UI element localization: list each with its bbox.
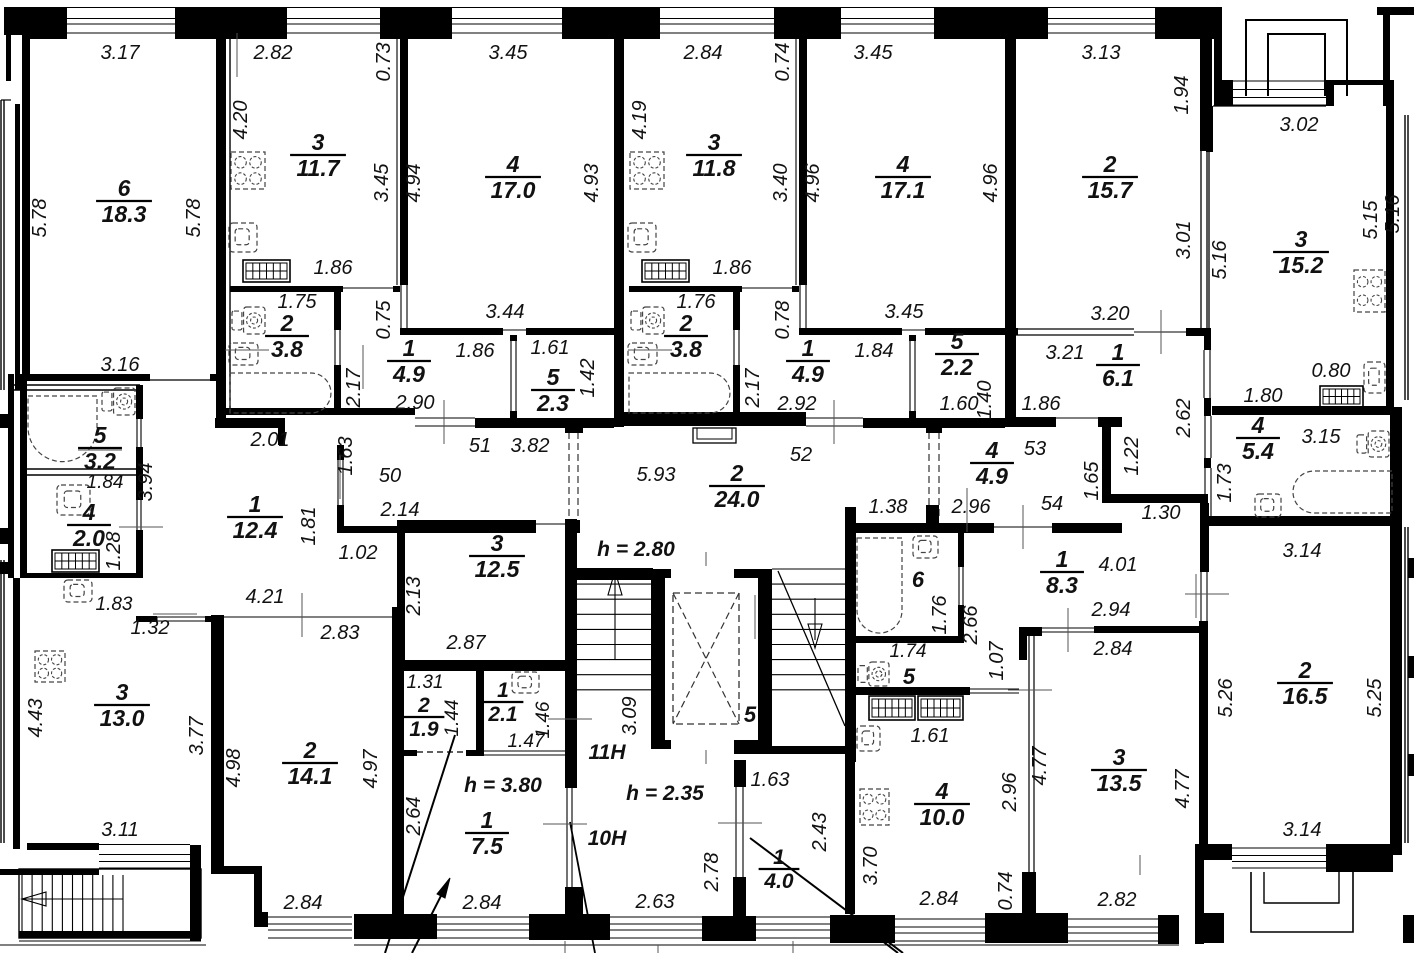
svg-text:1: 1 bbox=[497, 679, 509, 702]
wall between 3/15.2 and 4/5.4 bbox=[1212, 406, 1394, 415]
svg-text:3.45: 3.45 bbox=[885, 301, 925, 323]
svg-text:3.11: 3.11 bbox=[101, 819, 138, 841]
svg-text:4.20: 4.20 bbox=[230, 101, 252, 140]
svg-text:2.66: 2.66 bbox=[960, 605, 982, 646]
room 3/13.0 bottom wall bbox=[27, 843, 99, 850]
stair treads right flight bbox=[772, 568, 845, 570]
svg-text:1.02: 1.02 bbox=[339, 542, 378, 564]
stair top wall bbox=[577, 568, 653, 580]
room label 3/13.0 bbox=[94, 679, 150, 731]
svg-text:11.8: 11.8 bbox=[692, 155, 735, 181]
svg-text:3.77: 3.77 bbox=[186, 716, 208, 756]
top exterior wall pilaster blocks bbox=[4, 7, 67, 35]
room label 5/2.3 bbox=[531, 364, 575, 416]
svg-text:2: 2 bbox=[1103, 151, 1117, 177]
room 3/13.0 bottom window bbox=[99, 844, 190, 846]
elevator shaft walls bbox=[651, 569, 671, 578]
bottom window 4/10.0 bbox=[895, 918, 985, 920]
svg-text:1.94: 1.94 bbox=[1171, 76, 1193, 115]
wall between 5/3.2 and 4/2.0 bbox=[27, 468, 138, 470]
sink room 3/11.8 bbox=[628, 223, 656, 252]
svg-text:2.84: 2.84 bbox=[919, 888, 959, 910]
canopy window band room 3/15.2 bbox=[1233, 80, 1326, 82]
radiator 4/2.0 bbox=[52, 550, 99, 572]
room 3/12.5 bottom wall bbox=[397, 660, 575, 671]
room label 1/6.1 bbox=[1096, 339, 1140, 391]
svg-text:4.19: 4.19 bbox=[629, 101, 651, 140]
corridor dashed door lines east bbox=[928, 432, 930, 519]
radiator pair 4/10.0 a bbox=[869, 696, 915, 720]
svg-text:1.81: 1.81 bbox=[298, 507, 320, 546]
svg-text:3.45: 3.45 bbox=[489, 42, 529, 64]
entrance canopy inner rect bbox=[1268, 34, 1325, 96]
stair west wall bbox=[565, 519, 577, 754]
svg-text:15.2: 15.2 bbox=[1279, 252, 1324, 278]
svg-text:1: 1 bbox=[249, 491, 262, 517]
hall 1/12.4 top wall bbox=[215, 418, 285, 428]
svg-text:13.0: 13.0 bbox=[100, 705, 145, 731]
wall between 6 and 5 bbox=[855, 636, 964, 643]
door swing diagonal 10H bbox=[570, 822, 595, 953]
apt3 bottom wall bbox=[621, 412, 806, 426]
room label 2/15.7 bbox=[1082, 151, 1138, 203]
svg-text:5.16: 5.16 bbox=[1382, 194, 1404, 234]
svg-text:1.32: 1.32 bbox=[131, 617, 170, 639]
svg-text:6: 6 bbox=[118, 175, 131, 201]
svg-text:3.45: 3.45 bbox=[854, 42, 894, 64]
svg-text:53: 53 bbox=[1024, 438, 1046, 460]
room 4/17.0 bottom wall bbox=[400, 328, 503, 335]
svg-text:2.17: 2.17 bbox=[343, 368, 365, 409]
washbasin under 4/2.0 bbox=[64, 580, 92, 602]
toilet bath 2/3.8b bbox=[643, 307, 664, 334]
svg-text:5.78: 5.78 bbox=[183, 199, 205, 238]
entry stair outline bbox=[19, 869, 201, 938]
far right adjacent wall bbox=[1404, 115, 1406, 400]
toilet bath 4/5.4 bbox=[1368, 431, 1389, 457]
entry stair treads bbox=[21, 875, 23, 931]
svg-text:2: 2 bbox=[280, 310, 294, 336]
svg-text:1.38: 1.38 bbox=[869, 496, 908, 518]
svg-text:3.02: 3.02 bbox=[1280, 114, 1319, 136]
svg-text:2.83: 2.83 bbox=[320, 622, 360, 644]
stair up arrow bbox=[614, 575, 616, 660]
bath 4/5.4 left door bbox=[1204, 416, 1206, 458]
svg-text:3.13: 3.13 bbox=[1082, 42, 1121, 64]
section diagonal line left long bbox=[385, 735, 455, 953]
partition 4/10.0 vs 3/13.5 bbox=[1028, 636, 1030, 872]
bottom window 1/4.0 bbox=[756, 916, 830, 918]
door 0.75 lines bbox=[400, 285, 402, 328]
elevator car dashed with X bbox=[673, 593, 739, 724]
room label 4/4.9 bbox=[970, 437, 1014, 489]
room 5 bottom wall bbox=[855, 687, 970, 695]
svg-text:1.86: 1.86 bbox=[314, 257, 354, 279]
svg-text:1.80: 1.80 bbox=[1244, 385, 1283, 407]
room label 3/11.7 bbox=[290, 129, 346, 181]
toilet bath 2/3.8 bbox=[244, 307, 265, 334]
svg-text:5: 5 bbox=[94, 422, 108, 448]
svg-text:2.78: 2.78 bbox=[701, 853, 723, 893]
svg-text:3.8: 3.8 bbox=[271, 336, 303, 362]
svg-text:4.0: 4.0 bbox=[763, 870, 794, 893]
stove room 3/15.2 bbox=[1354, 270, 1385, 312]
svg-text:2.01: 2.01 bbox=[250, 429, 290, 451]
svg-text:2.84: 2.84 bbox=[283, 892, 323, 914]
toilet room 5 bbox=[869, 662, 889, 686]
window W3 room 4/17.0 bbox=[452, 7, 562, 9]
svg-text:2.13: 2.13 bbox=[403, 577, 425, 617]
washbasin bath 6 bbox=[913, 536, 938, 558]
room label 4/17.1 bbox=[875, 151, 931, 203]
apt3/apt4 divider wall bbox=[1005, 7, 1016, 427]
svg-text:3.21: 3.21 bbox=[1046, 342, 1085, 364]
svg-text:h = 3.80: h = 3.80 bbox=[464, 774, 542, 797]
svg-text:0.74: 0.74 bbox=[772, 43, 794, 82]
svg-text:2.43: 2.43 bbox=[809, 813, 831, 853]
svg-text:0.80: 0.80 bbox=[1312, 360, 1351, 382]
svg-text:1.74: 1.74 bbox=[890, 641, 927, 662]
bottom right porch inner bbox=[1264, 872, 1339, 903]
washbasin bath 2/3.8 bbox=[229, 343, 258, 365]
bath 2/3.8b top wall bbox=[629, 286, 742, 292]
svg-text:h = 2.35: h = 2.35 bbox=[626, 782, 704, 805]
entrance canopy top right outer rect bbox=[1246, 20, 1347, 96]
room 6 bottom wall bbox=[22, 374, 150, 381]
sink room 3/11.7 bbox=[229, 223, 257, 252]
room 2/15.7 bottom wall bbox=[1016, 328, 1134, 330]
svg-text:1.86: 1.86 bbox=[713, 257, 753, 279]
svg-text:12.4: 12.4 bbox=[233, 517, 278, 543]
bottom dim extension ticks bbox=[564, 941, 566, 953]
room label 6/18.3 bbox=[96, 175, 152, 227]
section diagonal line right long bbox=[750, 838, 903, 953]
svg-text:0.73: 0.73 bbox=[373, 43, 395, 82]
room label 3/13.5 bbox=[1091, 744, 1147, 796]
entry stair mid line with arrow bbox=[22, 898, 123, 900]
svg-text:11Н: 11Н bbox=[589, 741, 627, 764]
svg-text:1.84: 1.84 bbox=[855, 340, 894, 362]
svg-text:3.14: 3.14 bbox=[1283, 540, 1322, 562]
svg-text:4.43: 4.43 bbox=[25, 699, 47, 738]
svg-text:4: 4 bbox=[1251, 412, 1265, 438]
room label 3/12.5 bbox=[469, 530, 525, 582]
hall right wall to corridor bbox=[337, 445, 344, 460]
bathtub bath 2/3.8b bbox=[629, 373, 730, 413]
svg-text:1.22: 1.22 bbox=[1121, 437, 1143, 476]
svg-text:18.3: 18.3 bbox=[102, 201, 147, 227]
svg-text:1: 1 bbox=[1056, 546, 1069, 572]
stair down arrow bbox=[814, 598, 816, 640]
stove 4/10.0 bbox=[860, 789, 889, 825]
bath 2/3.8b right wall bbox=[733, 288, 740, 330]
svg-text:1.73: 1.73 bbox=[1214, 464, 1236, 503]
bathtub bath 4/5.4 bbox=[1293, 471, 1392, 513]
svg-text:5.15: 5.15 bbox=[1360, 200, 1382, 240]
corridor top wall west part bbox=[475, 418, 614, 428]
svg-text:2.14: 2.14 bbox=[380, 499, 420, 521]
bath 6 right wall bbox=[958, 533, 964, 567]
svg-text:1: 1 bbox=[802, 335, 815, 361]
stove room 3/11.8 bbox=[630, 152, 664, 189]
svg-text:1.9: 1.9 bbox=[409, 718, 439, 741]
svg-text:4.77: 4.77 bbox=[1172, 769, 1194, 809]
room 3/13.0 top wall bbox=[136, 616, 157, 622]
window W4 room 3/11.8 bbox=[660, 7, 774, 9]
svg-text:15.7: 15.7 bbox=[1088, 177, 1134, 203]
section diagonal line right short bbox=[855, 920, 898, 953]
room 3/15.2 right wall bbox=[1386, 84, 1394, 407]
apt2 entry door lines bbox=[415, 417, 475, 419]
wall 3/13.5 right bottom bbox=[1195, 844, 1204, 944]
svg-text:3.45: 3.45 bbox=[371, 163, 393, 203]
svg-text:2.82: 2.82 bbox=[1097, 889, 1137, 911]
svg-text:3: 3 bbox=[491, 530, 504, 556]
left wall lower (room 3/13.0) bbox=[13, 578, 20, 849]
room 3/12.5 left wall bbox=[397, 520, 405, 660]
room label 5/3.2 bbox=[78, 422, 122, 474]
room label 4/2.0 bbox=[67, 499, 111, 551]
room 2/16.5 left door bbox=[1200, 572, 1202, 621]
vent block below corridor wall bbox=[693, 428, 736, 443]
apt5 top wall bbox=[845, 523, 994, 533]
room 3/15.2 left wall bbox=[1206, 106, 1213, 152]
svg-text:1.86: 1.86 bbox=[1022, 393, 1062, 415]
svg-text:1.60: 1.60 bbox=[940, 393, 979, 415]
svg-text:2: 2 bbox=[417, 694, 430, 717]
svg-text:2.87: 2.87 bbox=[446, 632, 487, 654]
svg-text:1.61: 1.61 bbox=[911, 725, 950, 747]
svg-text:1.46: 1.46 bbox=[533, 701, 554, 738]
bottom window 1/7.5 bbox=[437, 916, 529, 918]
svg-text:2.84: 2.84 bbox=[683, 42, 723, 64]
svg-text:1.63: 1.63 bbox=[751, 769, 790, 791]
svg-text:3.16: 3.16 bbox=[101, 354, 141, 376]
entry stair bottom bar bbox=[19, 931, 201, 938]
wall 2/14.1 vs cluster bbox=[392, 607, 404, 917]
wall between 3/11.8 and 4/17.1 bbox=[799, 33, 807, 285]
svg-text:5.93: 5.93 bbox=[637, 464, 676, 486]
room label 1/4.9 b bbox=[786, 335, 830, 387]
svg-text:3.8: 3.8 bbox=[670, 336, 702, 362]
svg-text:1.65: 1.65 bbox=[1081, 461, 1103, 501]
svg-text:1.44: 1.44 bbox=[442, 700, 463, 737]
hallway/3-13.5 corner wall bbox=[1019, 627, 1042, 636]
bathtub bath 6 bbox=[857, 538, 902, 633]
apt2 bottom wall bbox=[222, 408, 415, 415]
opening 4.21 line bbox=[224, 616, 392, 618]
svg-text:1: 1 bbox=[403, 335, 416, 361]
svg-text:3.40: 3.40 bbox=[770, 164, 792, 203]
toilet 1/2.1 bbox=[512, 672, 539, 693]
window W6 room 2/15.7 bbox=[1048, 7, 1155, 9]
svg-text:3.15: 3.15 bbox=[1302, 426, 1342, 448]
svg-text:0.74: 0.74 bbox=[995, 872, 1017, 911]
svg-text:3.70: 3.70 bbox=[860, 847, 882, 886]
svg-text:54: 54 bbox=[1041, 493, 1063, 515]
svg-text:5: 5 bbox=[744, 702, 757, 727]
far right gutter lines lower bbox=[1404, 527, 1406, 843]
bath 4/5.4 bottom wall bbox=[1200, 516, 1394, 525]
svg-text:7.5: 7.5 bbox=[471, 833, 504, 859]
svg-text:3: 3 bbox=[1295, 226, 1308, 252]
svg-text:8.3: 8.3 bbox=[1046, 572, 1078, 598]
svg-text:2.64: 2.64 bbox=[403, 797, 425, 837]
svg-text:4.96: 4.96 bbox=[980, 163, 1002, 203]
svg-text:2.82: 2.82 bbox=[253, 42, 293, 64]
room 2/16.5 left wall upper bbox=[1200, 503, 1209, 572]
corridor top wall east part bbox=[1016, 417, 1056, 427]
svg-text:1.61: 1.61 bbox=[531, 337, 570, 359]
svg-text:3.20: 3.20 bbox=[1091, 303, 1130, 325]
svg-text:6.1: 6.1 bbox=[1102, 365, 1134, 391]
top wall inner band y33-39 between windows bbox=[22, 33, 67, 39]
svg-text:1.31: 1.31 bbox=[407, 672, 444, 693]
room 3/15.2 top inner line bbox=[1213, 105, 1326, 107]
bottom window corridor bbox=[610, 916, 702, 918]
2/14.1 bottom wall piece bbox=[254, 912, 268, 927]
apt5 top wall stub bbox=[926, 505, 939, 524]
wall 2/15.7 right: pilaster and plaster lines bbox=[1200, 35, 1212, 151]
svg-text:2: 2 bbox=[730, 460, 744, 486]
sink room 3/15.2 bbox=[1364, 362, 1385, 393]
room label 2/3.8 b bbox=[664, 310, 708, 362]
stair core east wall bbox=[845, 507, 856, 762]
svg-text:2.1: 2.1 bbox=[487, 703, 517, 726]
bottom right corner block bbox=[1326, 844, 1393, 872]
svg-text:1: 1 bbox=[773, 846, 785, 869]
room label 4/17.0 bbox=[485, 151, 541, 203]
svg-text:4: 4 bbox=[896, 151, 910, 177]
svg-text:3.17: 3.17 bbox=[101, 42, 141, 64]
svg-text:5.26: 5.26 bbox=[1215, 678, 1237, 718]
svg-text:3.14: 3.14 bbox=[1283, 819, 1322, 841]
door 0.78 lines bbox=[799, 285, 801, 328]
svg-text:2: 2 bbox=[303, 737, 317, 763]
bath 2/3.8 top wall bbox=[230, 286, 343, 292]
svg-text:3: 3 bbox=[312, 129, 325, 155]
svg-text:2.0: 2.0 bbox=[72, 525, 105, 551]
wall 1/8.3 vs 3/13.5 bbox=[1094, 626, 1200, 633]
room 2/16.5 right wall bbox=[1390, 525, 1402, 855]
svg-text:1.30: 1.30 bbox=[1142, 502, 1181, 524]
partition hall 1/4.9 and 5/2.3 bbox=[510, 335, 517, 341]
svg-text:10Н: 10Н bbox=[588, 827, 627, 850]
svg-text:3.2: 3.2 bbox=[84, 448, 116, 474]
svg-text:4.97: 4.97 bbox=[360, 749, 382, 789]
svg-text:13.5: 13.5 bbox=[1097, 770, 1143, 796]
dimension ticks bbox=[362, 345, 364, 389]
top right exterior wall piece bbox=[1377, 7, 1414, 15]
washbasin bath 4/5.4 bbox=[1255, 494, 1281, 517]
svg-text:0.78: 0.78 bbox=[772, 301, 794, 340]
left wall mid (rooms 5/3.2,4/2.0) bbox=[8, 374, 14, 578]
left edge stubs bbox=[0, 528, 8, 544]
svg-text:4: 4 bbox=[506, 151, 520, 177]
svg-text:1: 1 bbox=[481, 807, 494, 833]
svg-text:4: 4 bbox=[82, 499, 96, 525]
svg-text:1.84: 1.84 bbox=[87, 472, 124, 493]
svg-text:2.2: 2.2 bbox=[940, 354, 973, 380]
radiator room 3/11.7 bbox=[243, 260, 290, 282]
svg-text:4.93: 4.93 bbox=[581, 164, 603, 203]
room label 1/8.3 bbox=[1040, 546, 1084, 598]
bottom wall 4/2.0 bbox=[26, 573, 138, 578]
corridor dashed door lines west bbox=[568, 432, 570, 519]
apt2/apt3 divider wall bbox=[614, 7, 624, 427]
stove room 3/13.0 bbox=[35, 651, 65, 682]
svg-text:3.94: 3.94 bbox=[135, 463, 157, 502]
entry stair top bar bbox=[0, 869, 99, 875]
wall right of 1/7.5 upper bbox=[565, 744, 577, 788]
svg-text:1.83: 1.83 bbox=[96, 594, 133, 615]
corridor L wall horizontal bbox=[1111, 494, 1208, 503]
bath 2/3.8 right wall bbox=[334, 288, 341, 330]
svg-text:5: 5 bbox=[951, 328, 965, 354]
svg-text:4.9: 4.9 bbox=[392, 361, 425, 387]
svg-text:1.07: 1.07 bbox=[986, 641, 1008, 681]
far right adjacent stubs bbox=[1408, 558, 1414, 578]
radiator room 3/11.8 bbox=[642, 260, 689, 282]
cluster bottom wall bbox=[398, 750, 417, 756]
svg-text:4.9: 4.9 bbox=[975, 463, 1008, 489]
svg-text:10.0: 10.0 bbox=[920, 804, 965, 830]
room label 3/15.2 bbox=[1273, 226, 1329, 278]
window W1 room 6 bbox=[67, 7, 175, 9]
bottom right edge piece bbox=[1403, 915, 1414, 943]
room label 2/1.9 bbox=[404, 694, 445, 741]
entry stair outer edge lines bbox=[19, 940, 201, 942]
partition lower stub bbox=[1022, 872, 1036, 917]
room label 5/2.2 bbox=[935, 328, 979, 380]
room label 2/24.0 bbox=[709, 460, 765, 512]
svg-text:2: 2 bbox=[679, 310, 693, 336]
svg-text:2.3: 2.3 bbox=[536, 390, 569, 416]
svg-text:24.0: 24.0 bbox=[714, 486, 760, 512]
svg-text:1.28: 1.28 bbox=[103, 532, 125, 571]
left balcony rail upper bbox=[0, 100, 2, 390]
svg-text:4.01: 4.01 bbox=[1099, 554, 1138, 576]
stair treads left flight bbox=[577, 568, 651, 570]
svg-text:5.4: 5.4 bbox=[1242, 438, 1274, 464]
bath 5/3.2 top wall bbox=[14, 384, 140, 386]
svg-text:5: 5 bbox=[547, 364, 561, 390]
svg-text:3: 3 bbox=[1113, 744, 1126, 770]
svg-text:52: 52 bbox=[790, 444, 812, 466]
radiator room 3/15.2 bbox=[1320, 386, 1363, 407]
right exterior wall mid bbox=[1390, 407, 1402, 525]
svg-text:2.96: 2.96 bbox=[999, 772, 1021, 813]
svg-text:5.78: 5.78 bbox=[29, 199, 51, 238]
wall 3/13.0 vs 2/14.1 bbox=[211, 615, 224, 872]
apt2 left inner face line bbox=[229, 39, 231, 408]
room label 1/4.0 bbox=[759, 846, 800, 893]
bathtub bath 2/3.8 bbox=[230, 373, 331, 413]
svg-text:4.9: 4.9 bbox=[791, 361, 824, 387]
svg-text:1.63: 1.63 bbox=[335, 437, 357, 476]
room 2/16.5 left wall lower bbox=[1199, 621, 1208, 846]
room 2/16.5 top wall bbox=[1209, 517, 1394, 526]
svg-text:4.21: 4.21 bbox=[246, 586, 285, 608]
svg-text:3.09: 3.09 bbox=[619, 697, 641, 736]
room label 1/7.5 bbox=[465, 807, 509, 859]
washbasin 4/2.0 bbox=[57, 485, 90, 515]
room 2/16.5 bottom window bbox=[1232, 847, 1326, 849]
svg-text:6: 6 bbox=[912, 567, 925, 592]
left party wall bar upper bbox=[15, 104, 20, 390]
svg-text:3.82: 3.82 bbox=[511, 435, 550, 457]
room 6 door opening line bbox=[150, 379, 210, 381]
